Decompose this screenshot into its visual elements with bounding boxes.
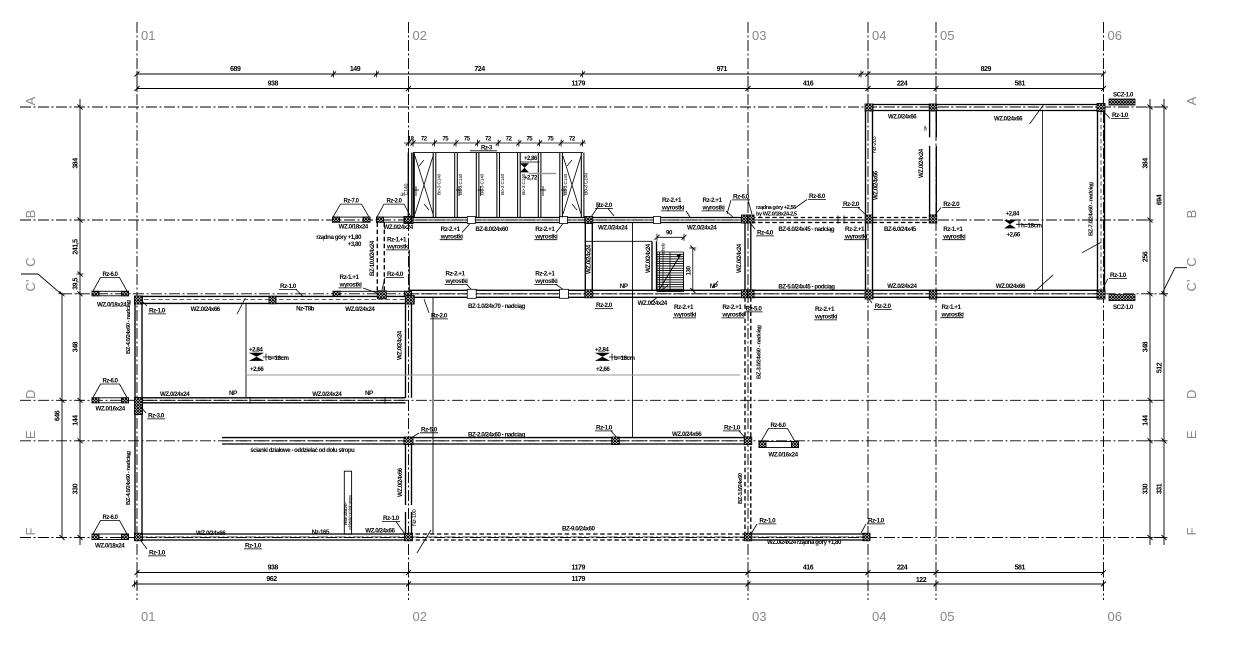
svg-text:wyrostki: wyrostki — [942, 233, 966, 240]
svg-text:971: 971 — [717, 66, 728, 73]
junction 05/A — [929, 104, 937, 111]
svg-text:Rz-4.0: Rz-4.0 — [387, 271, 404, 278]
wall row C' left part WZ.0/24x66 (01-02) — [137, 295, 409, 297]
svg-text:122: 122 — [916, 577, 927, 584]
svg-text:B: B — [1184, 210, 1199, 219]
svg-text:+2,84: +2,84 — [595, 347, 609, 354]
grid axis F (horizontal) — [20, 537, 1164, 539]
svg-text:938: 938 — [268, 81, 279, 88]
svg-text:01: 01 — [141, 28, 155, 43]
opening wyrostek in wall B at x471 — [467, 217, 475, 224]
svg-text:Rz-6.0: Rz-6.0 — [103, 515, 119, 521]
svg-text:WZ.0/24x66: WZ.0/24x66 — [996, 283, 1026, 290]
svg-text:Rz-6.0: Rz-6.0 — [103, 379, 119, 385]
svg-text:BZ-8.0/24x60: BZ-8.0/24x60 — [475, 226, 508, 233]
wall row C' right part (02-06) — [409, 289, 1105, 291]
diagonal slash crossing C' wall x240 — [237, 298, 245, 314]
svg-text:05: 05 — [940, 28, 954, 43]
svg-text:Bo-3 C140: Bo-3 C140 — [500, 173, 506, 195]
beam BZ-6.0/24x45 row B (03-04) dashed — [751, 217, 866, 219]
svg-text:BZ-2.0/24x60 - nadciąg: BZ-2.0/24x60 - nadciąg — [468, 432, 525, 439]
svg-text:Rz-2.0: Rz-2.0 — [943, 201, 960, 208]
svg-text:BZ-6.0/24x45 - nadciąg: BZ-6.0/24x45 - nadciąg — [778, 226, 835, 233]
stair up arrow diagonal — [659, 254, 681, 290]
svg-text:Rz-6.0: Rz-6.0 — [733, 194, 750, 201]
stair dim 130 vertical — [692, 248, 694, 291]
svg-text:WZ.0/18x24: WZ.0/18x24 — [95, 543, 125, 550]
svg-text:WZ.0/24x66: WZ.0/24x66 — [873, 170, 880, 200]
svg-text:Rz-7.0: Rz-7.0 — [344, 199, 360, 205]
svg-text:581: 581 — [1015, 81, 1026, 88]
svg-text:+2,72: +2,72 — [524, 176, 538, 182]
junction 04/C' — [865, 290, 873, 299]
svg-text:ścianki działowe - oddzielać o: ścianki działowe - oddzielać od dołu str… — [250, 448, 355, 454]
lintel tick wall D x385 — [384, 397, 386, 404]
svg-text:Rz-2.0: Rz-2.0 — [875, 303, 892, 310]
wall column 05 (A-B) with opening — [929, 111, 931, 138]
svg-text:SP: SP — [923, 125, 928, 131]
svg-text:01: 01 — [141, 609, 155, 624]
svg-text:330: 330 — [1143, 483, 1150, 494]
svg-text:+2,84: +2,84 — [1006, 211, 1020, 218]
svg-text:wyrostki: wyrostki — [386, 244, 410, 251]
wall row F WZ.0/24x24 (03-04) — [748, 533, 866, 535]
svg-text:Rz-8.0: Rz-8.0 — [809, 193, 826, 200]
light partition rectangle x348 (E-F) — [344, 471, 351, 534]
svg-text:A: A — [23, 96, 38, 105]
svg-text:BZ-5.0/24x45 - podciąg: BZ-5.0/24x45 - podciąg — [778, 284, 835, 291]
junction 06/C' — [1097, 290, 1105, 299]
svg-text:Rz-4.0: Rz-4.0 — [757, 230, 774, 237]
wall row E partition (x222-03) — [222, 437, 748, 439]
svg-text:NP: NP — [620, 283, 628, 290]
svg-text:384: 384 — [1143, 158, 1150, 169]
grid axis C stub left — [21, 273, 38, 275]
svg-text:BZ-6.0/24x45: BZ-6.0/24x45 — [884, 226, 917, 233]
wall row A WZ.0/24x66 (04-06) — [866, 104, 1105, 106]
marker Rz-6.0 with bar WZ.0/18x24 left of 01 at C' — [93, 278, 127, 292]
wall column 04 (A-C') — [865, 111, 867, 291]
svg-text:Bo-3 C140: Bo-3 C140 — [584, 172, 590, 195]
svg-text:schody: schody — [661, 242, 666, 254]
svg-text:Nz-100: Nz-100 — [412, 509, 418, 526]
junction 05/B — [929, 215, 937, 223]
svg-text:224: 224 — [897, 565, 908, 572]
lintel tick wall D x250 — [249, 397, 251, 404]
svg-text:144: 144 — [1143, 415, 1150, 426]
svg-text:Rz-2.+1: Rz-2.+1 — [535, 226, 555, 233]
marker Rz-7.0 with bar WZ.0/18x24 on axis B — [333, 204, 369, 217]
marker Rz-2.0 with bar WZ.0/24x24 on axis B — [377, 204, 411, 217]
svg-text:02: 02 — [413, 609, 427, 624]
svg-text:Rz-1.0: Rz-1.0 — [280, 283, 297, 290]
right dimension line outer: 694 512 331 — [1163, 99, 1165, 545]
svg-text:BZ-10.0/24x24: BZ-10.0/24x24 — [369, 240, 376, 276]
svg-text:348: 348 — [1143, 341, 1150, 352]
svg-text:04: 04 — [872, 28, 886, 43]
svg-text:WZ.0/24x24: WZ.0/24x24 — [345, 306, 375, 313]
svg-text:Rz-6.0: Rz-6.0 — [103, 272, 119, 278]
svg-text:wyrostki: wyrostki — [534, 233, 558, 240]
grid axis 05 (vertical) — [935, 22, 937, 600]
svg-text:Rz-1.+1: Rz-1.+1 — [387, 237, 407, 244]
beam BZ-9.0/24x60 row F (02-03) dashed — [409, 533, 749, 535]
svg-text:BZ-7.0/24x60 - nadciąg: BZ-7.0/24x60 - nadciąg — [1089, 182, 1095, 236]
svg-text:WZ.0/24x24 rządna góry +1,80: WZ.0/24x24 rządna góry +1,80 — [767, 539, 842, 546]
svg-text:Rz-2.+1: Rz-2.+1 — [845, 226, 865, 233]
wall bar WZ.0/24x24 on axis C' (333-412) — [333, 291, 412, 296]
junction 04/B — [865, 215, 873, 223]
svg-text:+2,86: +2,86 — [524, 156, 538, 162]
svg-text:h=18cm: h=18cm — [1021, 223, 1042, 230]
svg-text:WZ.0/24x24: WZ.0/24x24 — [918, 148, 925, 178]
svg-text:rządna góry +2,56: rządna góry +2,56 — [756, 205, 796, 211]
svg-text:A: A — [1184, 96, 1199, 105]
svg-text:WZ.0/24x66: WZ.0/24x66 — [994, 117, 1023, 123]
svg-text:WZ.0/24x24: WZ.0/24x24 — [312, 391, 342, 398]
svg-text:581: 581 — [1015, 565, 1026, 572]
svg-text:646: 646 — [55, 410, 62, 421]
svg-text:by WZ.0/18x24-2,5: by WZ.0/18x24-2,5 — [756, 212, 797, 218]
svg-text:Rz-2.+1: Rz-2.+1 — [722, 304, 742, 311]
svg-text:F: F — [23, 527, 38, 535]
opening wyrostek in wall C' at x471 — [467, 289, 476, 298]
svg-text:F: F — [1184, 527, 1199, 535]
junction x382/C' — [377, 291, 386, 299]
svg-text:BZ-3.0/24x60 - nadciąg: BZ-3.0/24x60 - nadciąg — [757, 325, 763, 379]
svg-text:Rz-5.0: Rz-5.0 — [421, 426, 438, 433]
wall column 06 (A-C') — [1097, 111, 1099, 291]
svg-text:SCZ-1.0: SCZ-1.0 — [1113, 304, 1134, 311]
junction 06/A — [1097, 104, 1105, 112]
wall line column 02 (B-C') single — [408, 250, 410, 290]
left dimension line: 384 241,5 39,5 348 144 330 — [79, 99, 81, 545]
svg-text:C: C — [1184, 257, 1199, 266]
wall column 02 (E-F) with door gap — [405, 444, 407, 505]
svg-text:90: 90 — [666, 230, 673, 237]
svg-text:C140: C140 — [404, 183, 410, 195]
svg-text:E: E — [1184, 430, 1199, 439]
svg-text:Rz-1.0: Rz-1.0 — [149, 550, 166, 557]
svg-text:wyrostki: wyrostki — [534, 278, 558, 285]
svg-text:+2,66: +2,66 — [596, 366, 610, 373]
svg-text:04: 04 — [872, 609, 886, 624]
beam BZ-3.0/24x60 column 03 (C'-F) dashed — [744, 297, 746, 534]
top dimension line row 1: 689 149 724 971 829 — [137, 73, 1104, 75]
svg-text:512: 512 — [1157, 362, 1164, 373]
svg-text:Rz-1.0: Rz-1.0 — [1110, 272, 1127, 279]
wall column 01 (C'-F) — [134, 296, 136, 540]
marker Rz-6.0 with bar WZ.0/16x24 left of 01 at D — [93, 384, 127, 398]
grid axis E (horizontal) — [20, 440, 1164, 442]
svg-text:Rz-2.+1: Rz-2.+1 — [535, 271, 555, 278]
stair dim 90 — [657, 236, 684, 238]
top dimension line row 2: 938 1179 416 224 581 — [137, 88, 1104, 90]
grid axis B (horizontal) — [20, 219, 1150, 221]
junction 03/B double — [742, 215, 748, 223]
svg-text:wyrostki: wyrostki — [721, 312, 745, 319]
svg-text:WZ.0/24x24: WZ.0/24x24 — [586, 244, 593, 274]
svg-text:938: 938 — [268, 565, 279, 572]
svg-text:BZ-9.0/24x60: BZ-9.0/24x60 — [562, 526, 595, 533]
svg-text:1179: 1179 — [572, 565, 586, 572]
svg-text:WZ.0/16x24: WZ.0/16x24 — [768, 452, 798, 459]
joist tie symbols — [413, 189, 419, 191]
partition line x246 (C'-D) — [245, 303, 247, 397]
svg-text:Rz-2.0: Rz-2.0 — [387, 199, 403, 205]
svg-text:Rz-1.0: Rz-1.0 — [759, 518, 776, 525]
svg-text:NP: NP — [229, 390, 237, 397]
svg-text:03: 03 — [752, 28, 766, 43]
svg-text:E: E — [23, 430, 38, 439]
svg-text:BZ-4.0/24x60 - nadciąg: BZ-4.0/24x60 - nadciąg — [126, 451, 132, 505]
svg-text:BZ-4.0/24x60 - nadciąg: BZ-4.0/24x60 - nadciąg — [126, 300, 132, 354]
svg-text:B: B — [23, 210, 38, 219]
svg-text:1179: 1179 — [572, 576, 586, 583]
svg-text:WZ.0/24x66: WZ.0/24x66 — [672, 431, 702, 438]
opening in wall B at x657 — [654, 217, 661, 224]
junction 02/B — [404, 217, 413, 224]
bottom dimension line row 1: 938 1179 416 224 581 — [137, 572, 1104, 574]
svg-text:Rz-1.+1: Rz-1.+1 — [943, 226, 963, 233]
level marker +2,86 +2,72 in joist bay — [520, 161, 540, 163]
junction 03/F — [744, 533, 752, 541]
svg-text:Rz-1.0: Rz-1.0 — [1112, 112, 1129, 119]
svg-text:+2,84: +2,84 — [249, 347, 263, 354]
svg-text:WZ.0/18x24: WZ.0/18x24 — [339, 224, 369, 231]
svg-text:wyrostki: wyrostki — [673, 312, 697, 319]
svg-text:Rz-5.0: Rz-5.0 — [746, 306, 763, 313]
svg-text:C': C' — [1184, 280, 1199, 292]
svg-text:130: 130 — [686, 266, 693, 276]
grid axis C' (horizontal) — [61, 293, 1168, 295]
svg-text:Rz-2.+1: Rz-2.+1 — [441, 226, 461, 233]
svg-text:WZ.0/24x24: WZ.0/24x24 — [397, 330, 404, 360]
lintel ticks in beam row B x840 — [837, 216, 839, 224]
svg-text:962: 962 — [266, 576, 277, 583]
junction 02/E — [404, 437, 413, 445]
svg-text:03: 03 — [752, 609, 766, 624]
svg-text:694: 694 — [1157, 194, 1164, 205]
svg-text:C: C — [23, 257, 38, 266]
marker Rz-6.0 with bar WZ.0/16x24 right of 03 at E — [761, 429, 795, 442]
svg-text:06: 06 — [1108, 609, 1122, 624]
wall row B WZ (02-03) with stub openings — [406, 217, 749, 219]
svg-text:WZ.0/24x24: WZ.0/24x24 — [598, 225, 628, 232]
junction x272/C' — [269, 296, 276, 304]
svg-text:wyrostki: wyrostki — [941, 311, 965, 318]
svg-text:+2,66: +2,66 — [250, 366, 264, 373]
svg-text:+3,80: +3,80 — [348, 241, 362, 248]
svg-text:Rz-1.0: Rz-1.0 — [383, 515, 400, 522]
wall x654 stair side (slab line to C') — [651, 241, 653, 290]
svg-text:WZ.0/24x66: WZ.0/24x66 — [365, 527, 395, 534]
svg-text:348: 348 — [73, 341, 80, 352]
svg-text:WZ.0/24x24: WZ.0/24x24 — [887, 283, 917, 290]
svg-text:WZ.0/24x24: WZ.0/24x24 — [384, 224, 414, 231]
bar SCZ-1.0 above A at 06 — [1109, 99, 1135, 105]
svg-text:330: 330 — [73, 483, 80, 494]
svg-text:Rz-1.0: Rz-1.0 — [596, 425, 613, 432]
svg-text:Bo-3 C140: Bo-3 C140 — [437, 173, 443, 195]
X bracing bay 8 — [563, 156, 581, 214]
joist bay top chord line — [413, 152, 583, 154]
svg-text:WZ.0/16x24: WZ.0/16x24 — [96, 406, 126, 413]
opening wyrostek in wall C' at x563 — [560, 289, 569, 298]
svg-text:wyrostki: wyrostki — [661, 205, 685, 212]
junction 04/F — [863, 533, 870, 541]
svg-text:wyrostki: wyrostki — [844, 233, 868, 240]
X bracing bay 1 — [415, 156, 433, 214]
svg-text:wyrostki: wyrostki — [814, 314, 838, 321]
svg-text:rządna góry +1,80: rządna góry +1,80 — [316, 234, 362, 241]
junction 03/C' double — [742, 290, 748, 298]
svg-text:Rz-1.0: Rz-1.0 — [149, 308, 166, 315]
svg-text:wyrostki: wyrostki — [702, 205, 726, 212]
wall column 02 joist side (above B) — [407, 153, 409, 218]
grid axis 03 (vertical) — [747, 22, 749, 600]
junction 01/D pilaster — [135, 398, 143, 415]
svg-text:Nz-165: Nz-165 — [312, 529, 330, 536]
diagonal slashes big room — [1030, 105, 1044, 124]
svg-text:+2,66: +2,66 — [1007, 232, 1021, 239]
svg-text:05: 05 — [940, 609, 954, 624]
svg-text:416: 416 — [803, 565, 814, 572]
svg-text:Rz-2.+1: Rz-2.+1 — [815, 306, 835, 313]
svg-text:Nz-203: Nz-203 — [872, 136, 878, 153]
svg-text:Rz-2.+1: Rz-2.+1 — [674, 304, 694, 311]
joist channels Bo-3 C140 — [411, 153, 413, 218]
svg-text:b=18cm: b=18cm — [268, 355, 289, 362]
grid axis A (horizontal) — [20, 106, 1168, 108]
junction 01/C' — [135, 296, 143, 304]
junction 02/F — [405, 533, 413, 541]
svg-text:416: 416 — [803, 81, 814, 88]
svg-text:WZ.0/24x66: WZ.0/24x66 — [397, 467, 404, 497]
svg-text:02: 02 — [413, 28, 427, 43]
svg-text:Rz-6.0: Rz-6.0 — [771, 423, 787, 429]
bar SCZ-1.0 below C' at 06 — [1109, 295, 1135, 301]
svg-text:Rz-1.+1: Rz-1.+1 — [942, 304, 962, 311]
grid axis 01 (vertical) — [136, 22, 138, 600]
diagonal slash crossing F wall x425 — [417, 530, 431, 553]
junction 04/A — [865, 104, 873, 111]
junction x588/B — [585, 217, 593, 224]
left dimension line 646 — [61, 294, 63, 538]
svg-text:C': C' — [23, 280, 38, 292]
junction 01/F — [135, 533, 143, 541]
svg-text:D: D — [23, 390, 38, 399]
junction 03/E — [744, 437, 752, 445]
svg-text:wyrostki: wyrostki — [445, 278, 469, 285]
junction x615/E — [612, 437, 620, 445]
diagonal slash above C' x715 (leader) — [712, 281, 718, 288]
grid axis 02 (vertical) — [408, 22, 410, 600]
stair landing slab edge line — [585, 240, 652, 242]
svg-text:oddzielać od dołu stropu: oddzielać od dołu stropu — [348, 494, 353, 530]
svg-text:WZ.0/24x66: WZ.0/24x66 — [196, 530, 226, 537]
svg-text:06: 06 — [1108, 28, 1122, 43]
grid axis C stub right — [1175, 267, 1187, 269]
svg-text:D: D — [1184, 390, 1199, 399]
svg-text:WZ.0/24x24: WZ.0/24x24 — [736, 243, 743, 273]
svg-text:331: 331 — [1157, 483, 1164, 494]
svg-text:224: 224 — [897, 81, 908, 88]
svg-text:Rz-2.+1: Rz-2.+1 — [446, 271, 466, 278]
svg-text:wyrostki: wyrostki — [339, 282, 363, 289]
svg-text:WZ.0/18x24: WZ.0/18x24 — [97, 302, 127, 309]
svg-text:WZ.0/24x66: WZ.0/24x66 — [191, 306, 221, 313]
beam BZ-6.0/24x45 row B (04-05) dashed — [873, 217, 930, 219]
wall row D WZ.0/24x24 (01-02) — [142, 397, 406, 399]
diagonal slash at B x595 — [591, 204, 600, 217]
grey section line y375 — [245, 374, 740, 376]
svg-text:Rz-3.0: Rz-3.0 — [148, 413, 165, 420]
svg-text:NP: NP — [365, 390, 373, 397]
wall column 02 (C'-D) — [405, 297, 407, 398]
svg-text:WZ.0/24x24: WZ.0/24x24 — [160, 391, 190, 398]
svg-text:WZ.0/24x66: WZ.0/24x66 — [888, 115, 917, 121]
svg-text:Rz-2.0: Rz-2.0 — [843, 201, 860, 208]
svg-text:b=18cm: b=18cm — [614, 355, 635, 362]
grid axis D (horizontal) — [20, 399, 1164, 401]
svg-text:241,5: 241,5 — [73, 239, 80, 255]
grid axis 06 (vertical) — [1103, 22, 1105, 600]
svg-text:Rz-2.+1: Rz-2.+1 — [703, 197, 723, 204]
svg-text:829: 829 — [981, 66, 992, 73]
right dimension line inner: 384 256 348 144 330 — [1149, 99, 1151, 545]
partition line x632 (B-E) — [632, 223, 634, 438]
svg-text:689: 689 — [230, 66, 241, 73]
svg-text:149: 149 — [350, 66, 361, 73]
bottom dimension line row 2: 962 1179 122 — [135, 583, 1104, 585]
svg-text:256: 256 — [1143, 251, 1150, 262]
svg-text:Rz-1.0: Rz-1.0 — [724, 425, 741, 432]
svg-text:144: 144 — [73, 415, 80, 426]
svg-text:Rz-1.+1: Rz-1.+1 — [340, 274, 360, 281]
svg-text:Rz-1.0: Rz-1.0 — [868, 518, 885, 525]
svg-text:wyrostki: wyrostki — [440, 233, 464, 240]
svg-text:384: 384 — [73, 158, 80, 169]
junction 05/C' — [929, 290, 937, 299]
stair flight hatch — [656, 252, 658, 292]
svg-text:39,5: 39,5 — [73, 277, 80, 289]
svg-text:BZ-3.0/24x60: BZ-3.0/24x60 — [738, 472, 744, 504]
grid axis 04 (vertical) — [867, 22, 869, 600]
svg-text:724: 724 — [474, 66, 485, 73]
wall row F WZ.0/24x66 (01-02) — [137, 533, 409, 535]
svg-text:WZ.0/24x24: WZ.0/24x24 — [687, 225, 717, 232]
svg-text:Rz-2.0: Rz-2.0 — [596, 302, 613, 309]
joist bay dimension line 18 72 75 75 72 72 75 75 72 — [404, 142, 586, 144]
wall column 03 (B-C') — [744, 223, 746, 291]
opening wyrostek in wall B at x563 — [560, 217, 568, 224]
svg-text:1179: 1179 — [572, 81, 586, 88]
junction x588/C' — [585, 290, 593, 298]
svg-text:SCZ-1.0: SCZ-1.0 — [1113, 92, 1134, 99]
wall x588 (B-C') — [584, 223, 586, 291]
marker Rz-6.0 with bar WZ.0/18x24 left of 01 at F — [93, 521, 127, 535]
junction 02/C' — [406, 296, 415, 305]
svg-text:BZ-1.0/24x70 - nadciąg: BZ-1.0/24x70 - nadciąg — [468, 303, 525, 310]
partition line x433 (C'-F) — [432, 298, 434, 534]
svg-text:Rz-2.0: Rz-2.0 — [431, 313, 448, 320]
svg-text:WZ.0/24x24: WZ.0/24x24 — [645, 243, 652, 273]
svg-text:Nz-T8b: Nz-T8b — [296, 306, 315, 313]
svg-text:Rz-1.0: Rz-1.0 — [245, 543, 262, 550]
beam BZ-10.0/24x24 dashed (B-C') at x380 — [376, 223, 378, 291]
slab joint line x1042 (A-C') — [1042, 111, 1044, 291]
